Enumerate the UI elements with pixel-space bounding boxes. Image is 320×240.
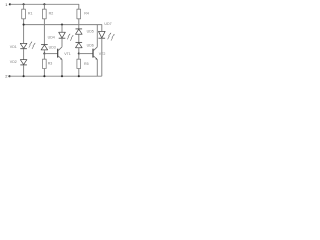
svg-text:R2: R2	[49, 12, 54, 16]
junction dot R5 bottom	[78, 75, 80, 77]
VT2 base bar	[92, 49, 94, 58]
svg-text:VD1: VD1	[10, 45, 17, 49]
svg-text:UD7: UD7	[104, 22, 111, 26]
wire: R5 to bottom rail	[78, 69, 80, 77]
resistor R3	[43, 54, 45, 60]
wire: UD4 to VT1 collector	[61, 38, 63, 47]
wire: mid rail to UD4	[61, 25, 63, 33]
svg-text:R1: R1	[28, 12, 33, 16]
svg-text:UD3: UD3	[49, 45, 56, 49]
svg-text:VT1: VT1	[64, 52, 71, 56]
wire: mid rail from R1 branch to UD7 corner	[24, 25, 102, 32]
resistor R2	[43, 9, 47, 19]
node dot base VT2	[78, 53, 80, 55]
svg-text:R5: R5	[84, 62, 89, 66]
wire: R1 bottom lead down to VD1	[23, 19, 25, 44]
junction dot VD2 bottom	[23, 75, 25, 77]
junction dot VT1 emitter	[61, 75, 63, 77]
svg-text:VD2: VD2	[10, 60, 17, 64]
UD7 emission arrows	[108, 33, 111, 39]
resistor R1	[22, 9, 26, 19]
VT2 collector	[94, 47, 98, 51]
terminal dot node 2	[8, 75, 10, 77]
resistor R5	[78, 54, 80, 60]
wire: VT2 emitter to bottom rail	[96, 60, 98, 77]
junction dot mid rail at R1 branch	[23, 24, 25, 26]
VT1 emitter with arrow	[58, 56, 62, 60]
wire: UD6 to base node VT2	[78, 48, 80, 54]
diode UD5 (cathode up)	[76, 29, 83, 34]
UD4 emission arrows	[67, 34, 70, 39]
wire: VT1 emitter to bottom rail	[61, 60, 63, 77]
wire: VD2 to bottom rail	[23, 65, 25, 76]
junction dot R3 bottom	[43, 75, 45, 77]
svg-text:R3: R3	[48, 62, 53, 66]
svg-text:UD5: UD5	[87, 29, 94, 33]
diode UD3 (cathode up)	[41, 45, 48, 50]
svg-text:UD4: UD4	[48, 36, 55, 40]
wire: VT2 collector to mid rail	[96, 25, 98, 47]
wire: bottom rail	[9, 75, 101, 77]
VT1 base lead	[44, 53, 57, 55]
junction dot mid rail above UD4	[61, 24, 63, 26]
wire: R2 bottom lead crossing mid rail down to UD3	[43, 19, 45, 45]
svg-text:R4: R4	[84, 12, 89, 16]
wire: R2 top lead	[43, 4, 45, 9]
VT2 emitter with arrow	[94, 56, 98, 60]
resistor R4	[77, 9, 81, 19]
node dot base VT1	[43, 53, 45, 55]
junction dot above R1	[23, 3, 25, 5]
wire: UD5 to UD6	[78, 34, 80, 42]
wire: top rail from node 1 to R4 corner	[10, 4, 79, 9]
wire: R4 bottom lead crossing mid rail down to UD5	[78, 19, 80, 29]
wire: UD7 to bottom rail corner	[101, 38, 103, 76]
VD1 emission arrows	[29, 42, 32, 48]
wire: R3 to bottom rail	[43, 69, 45, 77]
wire: VD1 to VD2	[23, 49, 25, 60]
svg-text:UD6: UD6	[87, 44, 94, 48]
VT2 base lead	[79, 53, 93, 55]
wire: UD3 to base node	[43, 50, 45, 54]
wire: R1 top lead	[23, 4, 25, 9]
diode UD6 (cathode up)	[76, 43, 83, 48]
VT1 collector	[58, 47, 62, 51]
VT1 base bar	[57, 49, 59, 58]
terminal dot node 1	[9, 3, 11, 5]
junction dot above R2	[43, 3, 45, 5]
